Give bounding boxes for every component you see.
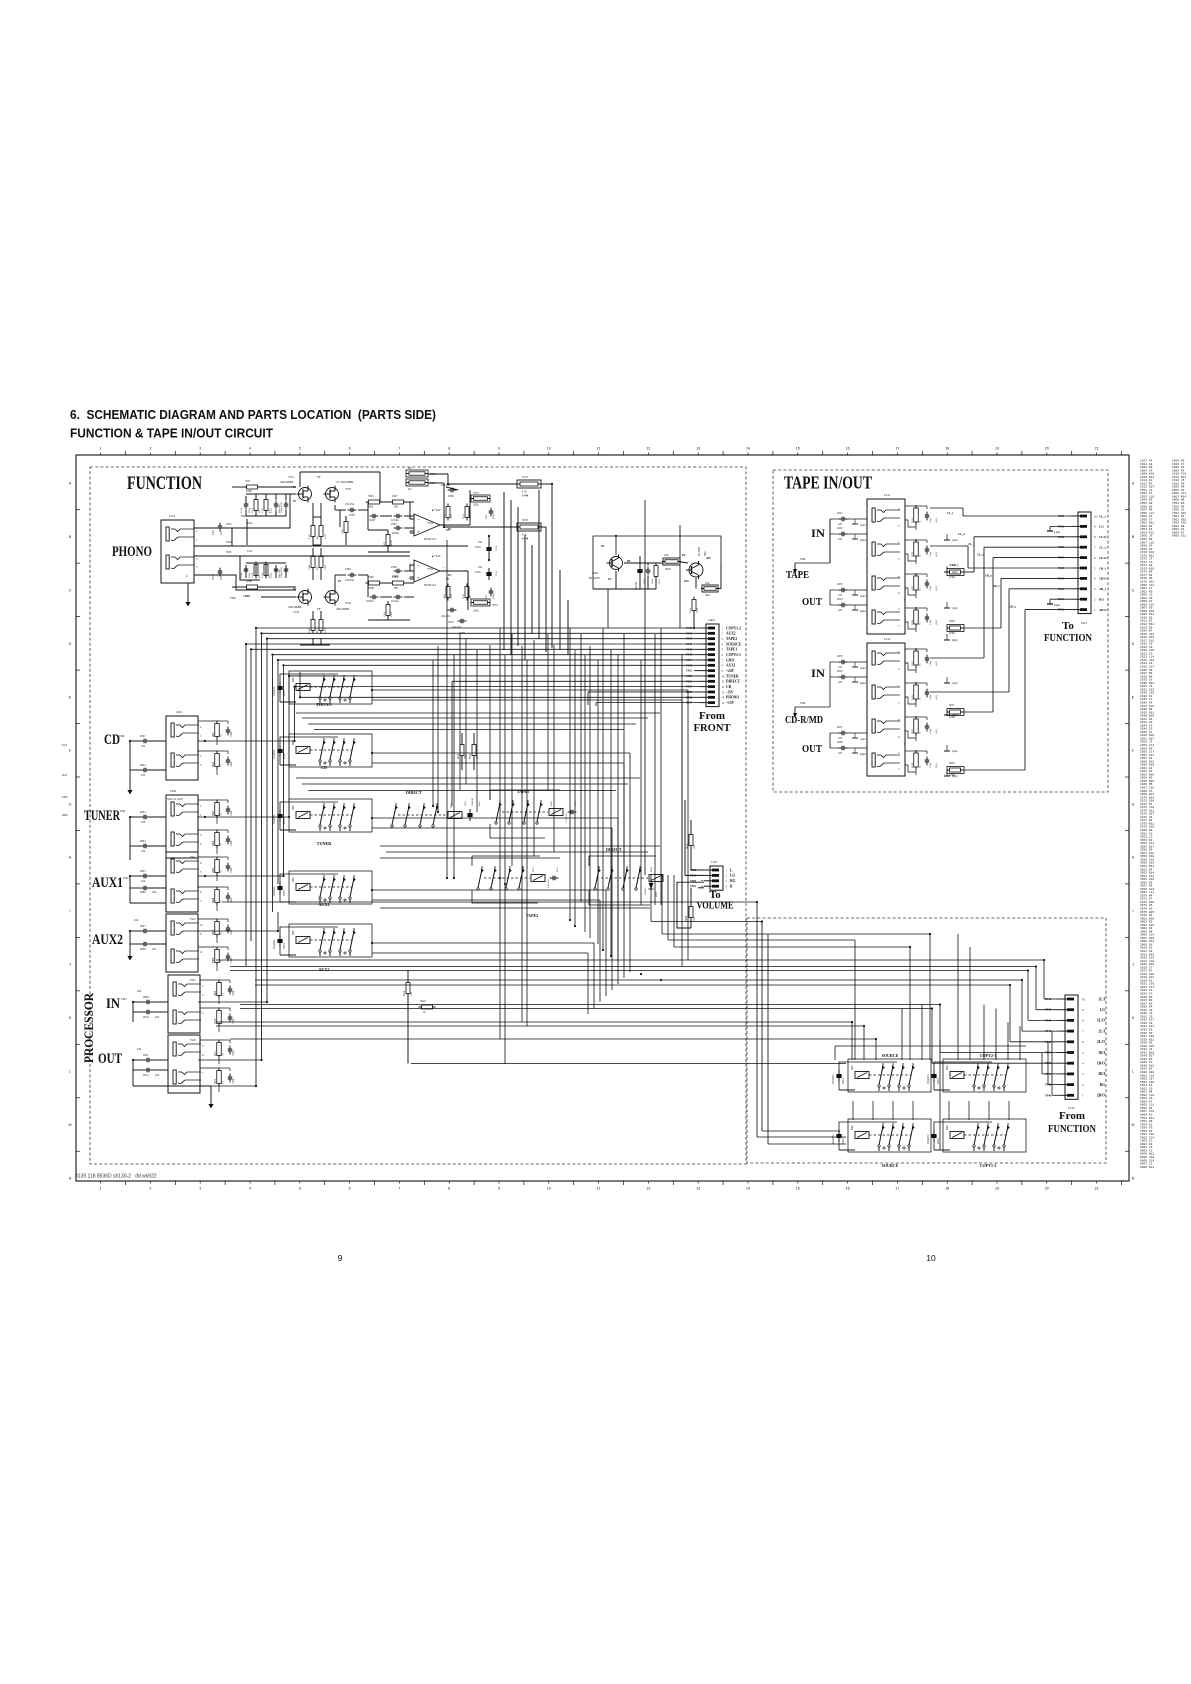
capacitor 2563 1000p — [396, 569, 398, 574]
svg-text:0.047: 0.047 — [369, 519, 376, 522]
svg-text:T949: T949 — [686, 654, 693, 657]
svg-text:CD: CD — [726, 685, 732, 689]
resistor 2567 560 — [393, 500, 404, 504]
svg-text:3: 3 — [199, 447, 201, 451]
capacitor 2669 — [646, 569, 651, 571]
svg-text:10k: 10k — [664, 553, 669, 557]
svg-text:1R_i: 1R_i — [952, 563, 958, 567]
svg-text:3630: 3630 — [949, 620, 955, 623]
svg-text:T940: T940 — [1045, 1094, 1052, 1097]
svg-text:T949: T949 — [1045, 1009, 1052, 1012]
svg-text:9: 9 — [498, 447, 500, 451]
svg-text:Lgnd: Lgnd — [952, 682, 958, 685]
connector 1257 To VOLUME — [710, 866, 723, 890]
svg-text:4: 4 — [249, 1187, 251, 1191]
PROCESSOR OUT jack — [168, 1035, 200, 1093]
svg-text:SOURCE: SOURCE — [882, 1163, 899, 1168]
svg-text:R: R — [730, 885, 733, 889]
resistor 3554 — [254, 565, 258, 576]
svg-text:2634: 2634 — [837, 598, 843, 601]
svg-text:To: To — [1062, 620, 1074, 632]
svg-text:1L/O: 1L/O — [1099, 535, 1107, 539]
resistor 3568 — [446, 587, 450, 598]
svg-text:2: 2 — [149, 447, 151, 451]
svg-text:IN: IN — [811, 666, 825, 680]
wire bus center verticals — [432, 660, 434, 806]
svg-text:16: 16 — [846, 447, 850, 451]
svg-text:3621: 3621 — [705, 594, 711, 597]
svg-text:3559: 3559 — [324, 533, 327, 539]
svg-text:5: 5 — [299, 1187, 301, 1191]
svg-text:2611: 2611 — [143, 1054, 149, 1057]
cap 2601 — [143, 739, 145, 744]
wire cap transistor — [615, 571, 617, 589]
resistor 3606 1k and capacitor 2618 150p — [215, 890, 220, 903]
svg-text:Rgnd: Rgnd — [952, 639, 958, 642]
relay COPY2-1 — [934, 1062, 992, 1090]
svg-text:2515: 2515 — [936, 1138, 940, 1145]
svg-text:6605: 6605 — [478, 800, 481, 806]
svg-text:226: 226 — [141, 821, 146, 824]
wire tape block routing — [930, 507, 963, 509]
svg-text:M: M — [69, 1123, 72, 1127]
svg-text:225: 225 — [155, 1074, 160, 1077]
svg-text:3554: 3554 — [251, 572, 254, 578]
svg-text:25u: 25u — [478, 541, 483, 544]
svg-text:223n: 223n — [475, 546, 481, 549]
svg-text:2568: 2568 — [391, 566, 397, 569]
svg-text:NJM2114: NJM2114 — [424, 583, 436, 587]
svg-text:2669: 2669 — [643, 578, 646, 584]
svg-text:2568: 2568 — [448, 495, 454, 498]
svg-text:T906: T906 — [1058, 525, 1065, 528]
svg-text:150p: 150p — [230, 810, 233, 816]
capacitor 2572 470p — [489, 590, 494, 592]
junction dots — [255, 627, 257, 629]
svg-text:TAPE: TAPE — [786, 569, 809, 581]
resistor 3651 — [654, 566, 658, 577]
TAPE IN/OUT block dashed border — [773, 470, 1108, 792]
svg-text:470p: 470p — [492, 593, 495, 599]
ground Rgnd tape 572 — [946, 566, 948, 572]
wire bus from connector 1604 — [256, 627, 700, 629]
svg-text:1R/O: 1R/O — [1097, 1062, 1105, 1066]
svg-text:LG: LG — [1099, 525, 1104, 529]
svg-text:1: 1 — [100, 1187, 102, 1191]
resistor 3621 1k and capacitor 2639 150p — [914, 508, 919, 522]
svg-text:3564: 3564 — [383, 611, 386, 617]
ground Lgnd tape 683 — [946, 677, 948, 683]
svg-text:3575: 3575 — [522, 475, 529, 479]
wire cdr in left — [829, 662, 831, 707]
capacitor 2637 225 — [841, 731, 843, 736]
resistor 1506 pair a — [311, 526, 315, 537]
svg-text:3635: 3635 — [665, 567, 672, 571]
svg-text:225: 225 — [838, 609, 843, 612]
connector 1610 From FUNCTION — [1065, 995, 1078, 1099]
svg-text:6. SCHEMATIC DIAGRAM AND PART: 6. SCHEMATIC DIAGRAM AND PARTS LOCATION … — [70, 407, 436, 422]
capacitor 2554 470p — [244, 568, 249, 570]
resistor 3562 — [386, 535, 390, 546]
svg-text:0V: 0V — [446, 529, 449, 532]
svg-text:47u/25u: 47u/25u — [345, 503, 355, 506]
svg-text:14: 14 — [746, 1187, 750, 1191]
svg-text:Rgnd: Rgnd — [860, 753, 866, 756]
svg-text:Rgnd: Rgnd — [952, 571, 958, 574]
svg-text:12: 12 — [646, 447, 650, 451]
svg-text:3612: 3612 — [214, 1078, 217, 1084]
TAPE jack 1611 — [867, 499, 905, 634]
capacitor 2560 — [284, 568, 289, 570]
capacitor 2634 225 — [841, 603, 843, 608]
svg-text:225: 225 — [838, 752, 843, 755]
svg-text:T905: T905 — [226, 551, 232, 554]
resistor 3564 — [386, 605, 390, 616]
svg-text:−: − — [417, 519, 420, 524]
svg-text:3601: 3601 — [212, 731, 215, 737]
svg-text:470K: 470K — [949, 716, 955, 719]
relay PHONO — [280, 674, 338, 702]
svg-text:G: G — [1132, 802, 1135, 806]
svg-text:3: 3 — [199, 1187, 201, 1191]
svg-text:2574: 2574 — [495, 545, 498, 551]
svg-text:9606 G11: 9606 G11 — [1172, 535, 1186, 538]
svg-text:8: 8 — [448, 1187, 450, 1191]
svg-text:LG: LG — [730, 874, 735, 878]
cap 2606 — [143, 886, 145, 891]
svg-text:2R_i: 2R_i — [993, 584, 999, 588]
svg-text:2638: 2638 — [837, 741, 843, 744]
svg-text:To: To — [709, 890, 720, 901]
svg-text:9: 9 — [338, 1253, 343, 1263]
TAPE jack 1612 — [867, 643, 905, 776]
svg-text:225: 225 — [838, 523, 843, 526]
resistor 3626 1k and capacitor 2644 150p — [914, 685, 919, 699]
svg-text:1: 1 — [100, 447, 102, 451]
svg-text:10: 10 — [1094, 514, 1098, 518]
svg-text:2568: 2568 — [345, 568, 351, 571]
svg-text:13: 13 — [696, 1187, 700, 1191]
svg-text:2L_i: 2L_i — [1099, 546, 1106, 550]
svg-text:PHONO: PHONO — [316, 702, 332, 707]
svg-text:3628: 3628 — [911, 762, 914, 768]
transistor 7554 2SK369BL — [326, 591, 339, 604]
relay SOURCE upper — [839, 1062, 897, 1090]
svg-text:3622: 3622 — [911, 551, 914, 557]
cap 2611 — [146, 1058, 148, 1063]
FUNCTION block dashed border — [90, 467, 746, 1164]
svg-text:3651: 3651 — [658, 578, 661, 584]
svg-text:CD: CD — [321, 765, 327, 770]
svg-text:100k: 100k — [651, 578, 654, 584]
svg-text:2636: 2636 — [837, 670, 843, 673]
transistor 7601 BC547B — [689, 563, 703, 577]
svg-text:8: 8 — [448, 447, 450, 451]
svg-text:TUNER: TUNER — [726, 674, 739, 678]
svg-text:0V: 0V — [338, 580, 341, 583]
resistor 3623 1k and capacitor 2641 150p — [914, 576, 919, 590]
svg-text:LG: LG — [1100, 1008, 1105, 1012]
capacitor 2635 225 — [841, 660, 843, 665]
capacitor 2551 — [218, 525, 223, 527]
capacitor 2555 68p — [274, 503, 279, 505]
svg-text:3574: 3574 — [492, 604, 498, 607]
svg-text:(1O): (1O) — [935, 729, 938, 734]
svg-text:9601: 9601 — [946, 1124, 949, 1130]
svg-text:T908: T908 — [1058, 567, 1065, 570]
svg-text:150p(1UF): 150p(1UF) — [280, 502, 283, 513]
svg-text:T912: T912 — [1058, 609, 1065, 612]
svg-text:9601: 9601 — [292, 929, 295, 935]
svg-text:2515: 2515 — [282, 690, 286, 697]
svg-text:T119: T119 — [686, 659, 693, 662]
svg-text:9601: 9601 — [292, 804, 295, 810]
svg-text:12: 12 — [646, 1187, 650, 1191]
svg-text:3602: 3602 — [212, 761, 215, 767]
svg-text:AUX1: AUX1 — [92, 875, 123, 891]
svg-text:TAPE IN/OUT: TAPE IN/OUT — [784, 473, 872, 493]
svg-text:2R_i: 2R_i — [1099, 587, 1106, 591]
svg-text:1R_o: 1R_o — [985, 573, 992, 577]
resistor 3607 1k and capacitor 2619 150p — [215, 922, 220, 935]
svg-text:4: 4 — [249, 447, 251, 451]
capacitor 0.047 b — [372, 595, 374, 600]
svg-text:6: 6 — [349, 1187, 351, 1191]
svg-text:Lgnd: Lgnd — [952, 607, 958, 610]
svg-text:3614: 3614 — [403, 990, 406, 996]
resistor 3630 470K — [950, 626, 961, 630]
svg-text:2L/O: 2L/O — [1099, 556, 1107, 560]
resistor 3631 470K — [950, 710, 961, 714]
svg-text:9601: 9601 — [851, 1124, 854, 1130]
svg-text:10u/63v: 10u/63v — [831, 1134, 835, 1144]
svg-text:18: 18 — [945, 1187, 949, 1191]
svg-text:225: 225 — [838, 681, 843, 684]
svg-text:21: 21 — [1095, 447, 1099, 451]
resistor 3621 10k — [702, 585, 718, 592]
svg-text:7V 2SK368BL: 7V 2SK368BL — [336, 480, 354, 484]
resistor 3563 — [344, 522, 348, 533]
svg-text:2R/O: 2R/O — [1099, 608, 1107, 612]
wire verticals x757 — [756, 902, 758, 1137]
svg-text:DIRECT: DIRECT — [606, 847, 622, 852]
svg-text:N: N — [1132, 1176, 1135, 1180]
svg-text:T922: T922 — [190, 856, 196, 859]
svg-text:T915: T915 — [247, 550, 253, 553]
wire opamp a out — [440, 524, 470, 526]
svg-text:2637: 2637 — [837, 726, 843, 729]
ruler ticks — [100, 453, 102, 456]
svg-text:T949: T949 — [686, 632, 693, 635]
ground at phono jack — [187, 596, 189, 602]
resistor 3625 1k and capacitor 2643 150p — [914, 651, 919, 665]
svg-text:7553: 7553 — [345, 487, 352, 491]
svg-text:2515: 2515 — [841, 1138, 845, 1145]
svg-text:Rgnd: Rgnd — [1054, 604, 1061, 607]
svg-text:2515: 2515 — [841, 1078, 845, 1085]
svg-text:2607: 2607 — [140, 925, 146, 928]
svg-text:0.012u: 0.012u — [391, 600, 399, 603]
capacitor 2574 25u 223n — [486, 547, 491, 551]
svg-text:2558: 2558 — [349, 514, 355, 517]
svg-text:T947: T947 — [1045, 1030, 1052, 1033]
svg-text:T950: T950 — [686, 664, 693, 667]
svg-text:7554: 7554 — [345, 601, 352, 605]
svg-text:2515: 2515 — [282, 890, 286, 897]
svg-text:COPY1-2: COPY1-2 — [980, 1163, 997, 1168]
svg-text:150p: 150p — [929, 551, 932, 557]
svg-text:1551: 1551 — [169, 514, 176, 518]
svg-text:OUT: OUT — [802, 596, 823, 608]
svg-text:T906: T906 — [1058, 546, 1065, 549]
relay DIRECT upper — [391, 825, 393, 827]
capacitor 2570 10u/16v — [450, 608, 452, 613]
svg-text:2554: 2554 — [240, 572, 243, 578]
svg-text:H: H — [1132, 856, 1135, 860]
svg-text:225: 225 — [141, 774, 146, 777]
svg-text:470K: 470K — [949, 774, 955, 777]
svg-text:150B: 150B — [368, 587, 374, 590]
svg-text:6608: 6608 — [655, 891, 658, 897]
svg-text:150p: 150p — [232, 1018, 235, 1024]
transistor 7553 2SK368BL — [326, 488, 339, 501]
svg-text:1L_o: 1L_o — [958, 532, 965, 536]
svg-text:7603: 7603 — [464, 800, 467, 806]
svg-text:10: 10 — [926, 1253, 936, 1263]
svg-text:100k: 100k — [443, 593, 446, 599]
svg-text:10u/63v: 10u/63v — [926, 1074, 930, 1084]
svg-text:3611: 3611 — [214, 1050, 217, 1056]
resistor 3565 100k — [369, 500, 380, 504]
svg-text:2609: 2609 — [143, 996, 149, 999]
svg-text:From: From — [1059, 1110, 1085, 1122]
resistor 3609 1k and capacitor 2621 150p — [217, 983, 222, 996]
svg-text:18: 18 — [945, 447, 949, 451]
capacitor 2571 470p — [489, 510, 494, 512]
svg-text:G: G — [69, 802, 72, 806]
svg-text:1613: 1613 — [1081, 621, 1088, 625]
svg-text:2565: 2565 — [391, 523, 397, 526]
resistor 3573 220k — [471, 495, 490, 502]
svg-text:SOURCE: SOURCE — [882, 1053, 899, 1058]
svg-text:2556: 2556 — [270, 572, 273, 578]
transistor 7602 BC547B — [610, 557, 623, 570]
capacitor 2632 225 — [841, 532, 843, 537]
svg-text:2612: 2612 — [143, 1074, 149, 1077]
svg-text:7555: 7555 — [427, 567, 434, 571]
svg-text:1L/O: 1L/O — [1097, 1019, 1105, 1023]
svg-text:3608: 3608 — [212, 957, 215, 963]
svg-text:FUNCTION: FUNCTION — [1048, 1123, 1096, 1135]
svg-text:1601: 1601 — [176, 710, 183, 714]
svg-text:2553: 2553 — [240, 507, 243, 513]
svg-text:FRONT: FRONT — [694, 722, 732, 734]
wire phono to preamp — [194, 494, 296, 528]
svg-text:19: 19 — [995, 447, 999, 451]
svg-text:14: 14 — [746, 447, 750, 451]
svg-text:7: 7 — [398, 1187, 400, 1191]
svg-text:150p: 150p — [929, 585, 932, 591]
svg-text:I: I — [70, 909, 71, 913]
svg-text:150p: 150p — [929, 619, 932, 625]
svg-text:2610: 2610 — [143, 1016, 149, 1019]
svg-text:AUX1: AUX1 — [726, 664, 736, 668]
svg-text:7555: 7555 — [427, 521, 434, 525]
resistor 3574 220k — [471, 599, 490, 606]
svg-text:10u/63v: 10u/63v — [926, 1134, 930, 1144]
svg-text:3617: 3617 — [686, 843, 689, 849]
svg-text:T910: T910 — [1058, 588, 1065, 591]
svg-text:3626: 3626 — [911, 694, 914, 700]
svg-text:1L/I: 1L/I — [1098, 997, 1105, 1001]
svg-text:T950: T950 — [686, 638, 693, 641]
svg-text:T903: T903 — [121, 998, 127, 1001]
svg-text:150p: 150p — [230, 867, 233, 873]
svg-text:2SK369BL: 2SK369BL — [288, 605, 302, 609]
svg-text:IN: IN — [811, 526, 825, 540]
svg-text:2632: 2632 — [837, 527, 843, 530]
cap 2609 — [146, 1000, 148, 1005]
resistor 3620 100k — [692, 600, 696, 611]
svg-text:11: 11 — [597, 447, 601, 451]
FROM-FUNCTION block dashed border — [747, 918, 1106, 1163]
relay AUX2 — [280, 927, 338, 955]
svg-text:2567: 2567 — [392, 495, 398, 498]
svg-text:D: D — [69, 642, 72, 646]
ground Rgnd tape 776 — [946, 770, 948, 776]
svg-text:T962: T962 — [800, 702, 806, 705]
svg-text:10: 10 — [547, 447, 551, 451]
svg-text:9601: 9601 — [946, 1064, 949, 1070]
TUNER input jack 1602 — [166, 795, 198, 858]
power circuit outer box — [593, 536, 721, 589]
wire fan into connector 1610 — [1044, 998, 1059, 1000]
svg-text:3624: 3624 — [911, 619, 914, 625]
svg-text:3552: 3552 — [245, 595, 251, 598]
svg-text:T914: T914 — [247, 522, 253, 525]
svg-text:2515: 2515 — [282, 753, 286, 760]
svg-text:7551: 7551 — [288, 475, 295, 479]
svg-text:47u/25u: 47u/25u — [345, 579, 355, 582]
svg-text:1R/I: 1R/I — [1098, 1051, 1105, 1055]
svg-text:3607: 3607 — [212, 929, 215, 935]
svg-text:2631: 2631 — [837, 512, 843, 515]
svg-text:26V: 26V — [706, 556, 712, 560]
capacitor 2557 — [284, 503, 289, 505]
svg-text:13: 13 — [696, 447, 700, 451]
svg-text:TUNER: TUNER — [317, 841, 333, 846]
svg-text:22n: 22n — [141, 880, 146, 883]
resistor 3601 1k and capacitor 2613 150p — [215, 724, 220, 737]
svg-text:D: D — [1132, 642, 1135, 646]
svg-text:1R/O: 1R/O — [1099, 577, 1107, 581]
capacitor 2565 1000p — [396, 526, 398, 531]
svg-text:2: 2 — [149, 1187, 151, 1191]
svg-text:3566: 3566 — [368, 576, 374, 579]
resistor 3552 226B — [247, 585, 258, 589]
cap 2612 — [146, 1068, 148, 1073]
svg-text:17: 17 — [895, 1187, 899, 1191]
svg-text:Lgnd: Lgnd — [952, 750, 958, 753]
svg-text:3571: 3571 — [462, 513, 465, 519]
relay DIRECT lower — [594, 888, 596, 890]
svg-text:10: 10 — [547, 1187, 551, 1191]
svg-text:AUX2: AUX2 — [726, 632, 736, 636]
svg-text:H: H — [69, 856, 72, 860]
svg-text:5: 5 — [299, 447, 301, 451]
ground processor — [210, 1098, 212, 1104]
svg-text:T902: T902 — [123, 877, 129, 880]
